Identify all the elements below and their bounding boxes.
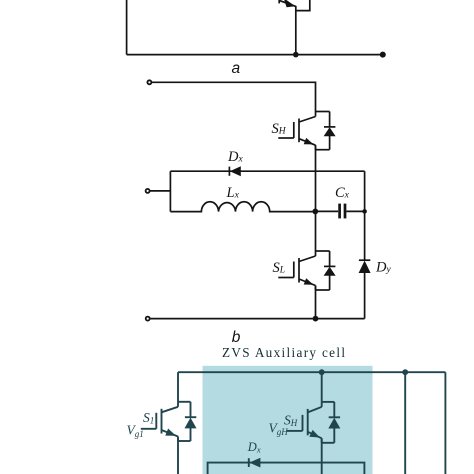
wire S_H emitter vertical (circuit c) [321,438,323,474]
wire right vertical 1 (circuit c) [404,372,406,474]
svg-text:ZVS Auxiliary cell: ZVS Auxiliary cell [222,345,345,360]
wire Dx branch (circuit b) [170,170,364,172]
node terminal dot right (circuit a) [380,52,386,58]
wire right vertical 2 (circuit c) [444,372,446,474]
diode Dy (circuit b) [359,260,371,318]
wire top rail (circuit b) [152,82,316,111]
node junction Cx/Lx (circuit b) [312,209,318,215]
wire S1 collector vertical (circuit c) [177,372,179,402]
node junction midpoint (circuit a) [293,52,299,58]
node junction Cx right (circuit b) [362,209,367,214]
transistor remnant (cropped, circuit a) [279,0,296,7]
wire bottom rail (circuit a) [127,54,383,56]
transistor S_H [278,112,335,150]
capacitor Cx [315,204,364,219]
node junction bottom (circuit b) [313,316,319,322]
terminal mid-left (circuit b) [146,189,150,193]
transistor S1 [141,402,197,441]
wire top rail (circuit c) [178,371,445,373]
node junction rail right (circuit c) [402,369,408,375]
node junction rail / S_H (circuit c) [319,369,325,375]
diode loop remnant (circuit a) [296,0,310,11]
svg-text:a: a [232,60,241,77]
terminal top-left (circuit b) [147,80,151,84]
transistor S_H aux [287,402,340,443]
wire mid-left lead (circuit b) [150,190,170,192]
wire left vertical (circuit a) [126,0,128,55]
terminal bottom-left (circuit b) [146,317,150,321]
wire S_L emitter to bottom rail (circuit b) [315,286,317,319]
wire right branch vertical (circuit b) [364,171,366,260]
wire midpoint vertical (circuit b) [315,145,317,251]
wire S1 emitter vertical (circuit c) [177,437,179,474]
wire left branch vertical (circuit b) [169,171,171,211]
wire bottom rail (circuit b) [150,318,365,320]
diode Dx (circuit b) [229,166,240,176]
inductor Lx [170,202,315,212]
svg-text:b: b [232,329,241,346]
wire S_H collector vertical (circuit c) [321,372,323,402]
wire Dx branch (circuit c) [208,463,365,474]
diode Dx (circuit c) [249,458,261,468]
wire emitter vertical (circuit a) [295,6,297,55]
ZVS auxiliary cell shaded region [203,366,373,474]
transistor S_L [278,251,335,290]
